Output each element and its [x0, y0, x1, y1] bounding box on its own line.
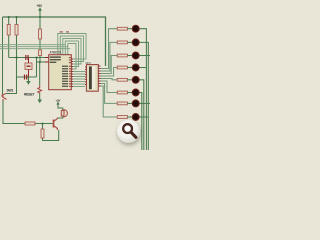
power +5V top — [37, 4, 43, 11]
wire R3 chain vertical — [39, 10, 41, 62]
ground arrow crystal — [26, 77, 31, 85]
net labels near bus corners — [60, 31, 70, 32]
LED D1 — [132, 25, 139, 32]
wire IC to respack 7 — [71, 86, 85, 88]
resistor R7 row2 — [117, 41, 127, 44]
switch RESET — [38, 86, 42, 94]
wire buzzer power — [58, 104, 63, 111]
LED D2 — [132, 39, 139, 46]
wire crystal loop bottom — [17, 76, 37, 78]
resistor R12 row7 — [117, 102, 127, 105]
wire row5 res-led — [127, 79, 132, 81]
wire respack fan row4 — [101, 68, 118, 77]
wire port bus horizontal 3 — [0, 48, 70, 50]
wire row7 res-led — [127, 102, 132, 104]
wire IC to respack 6 — [71, 83, 85, 85]
wire buzzer to collector — [58, 116, 63, 118]
wire port bus horizontal 1 — [0, 44, 65, 46]
wire port bus horizontal 2 — [0, 46, 68, 48]
svg-text:RESET: RESET — [24, 93, 35, 97]
transistor Q1 — [54, 118, 58, 131]
svg-text:SW1: SW1 — [7, 88, 14, 92]
wire led row6 right — [139, 93, 141, 151]
wire IC to respack 2 — [71, 73, 85, 75]
resistor R8 row3 — [117, 54, 127, 57]
wire respack fan row8 — [101, 86, 118, 117]
wire loop P0 3 — [63, 39, 81, 65]
resistor R3 — [39, 29, 42, 39]
wire reset vertical — [39, 62, 41, 100]
wire led row3 right — [139, 55, 150, 57]
wire RST horizontal — [37, 61, 49, 63]
IC inner text smudges — [50, 56, 68, 87]
resistor R4 base — [25, 122, 35, 125]
wire respack fan row1 — [101, 29, 118, 69]
wire loop P0 4 — [65, 41, 78, 67]
resistor R5 emitter — [41, 129, 44, 138]
wire IC to respack 4 — [71, 78, 85, 80]
wire base rail to transistor — [35, 123, 53, 125]
wire respack fan row5 — [101, 79, 118, 80]
wire R2 chain / crystal loop left vertical — [16, 17, 18, 77]
wire loop P0 2 — [60, 36, 83, 62]
wire led row7 right — [139, 102, 150, 104]
wire led row1 right — [139, 29, 146, 150]
LED D6 — [132, 89, 139, 96]
wire left edge vertical to SW1 — [2, 17, 4, 94]
wire R1 chain vertical — [8, 17, 10, 58]
wire row2 res-led — [127, 41, 132, 43]
svg-text:RP1: RP1 — [86, 61, 92, 65]
LED D3 — [132, 52, 139, 59]
wire respack fan row3 — [101, 56, 118, 74]
LED D7 — [132, 100, 139, 107]
LED D4 — [132, 64, 139, 71]
wire row1 res-led — [127, 28, 132, 30]
svg-text:+5V: +5V — [55, 99, 60, 103]
wire led row4 right — [139, 67, 146, 69]
wire XTAL1 horizontal — [9, 57, 49, 59]
resistor R1 — [7, 25, 10, 36]
wire crystal loop right vertical — [36, 58, 38, 78]
wire SW1 to base rail — [3, 100, 25, 124]
wire IC to respack 1 — [71, 71, 85, 73]
power +5V buzzer — [55, 99, 60, 105]
resistor R6 row1 — [117, 27, 127, 30]
LED rows: resistor + LED x8 — [117, 25, 139, 120]
wire led row5 right — [139, 80, 143, 150]
pin stubs right — [71, 59, 73, 87]
capacitor C2 — [25, 75, 27, 80]
resistor R10 row5 — [117, 78, 127, 81]
capacitor C3 reset — [39, 50, 42, 56]
pin stubs left — [45, 58, 49, 63]
wire row3 res-led — [127, 55, 132, 57]
wire IC to respack 3 — [71, 76, 85, 78]
wire loop P0 5 — [68, 44, 76, 70]
junction dots — [8, 16, 44, 124]
wire respack fan row6 — [101, 81, 118, 93]
LED D8 — [132, 114, 139, 121]
op-amp U1 microcontroller AT89C51 — [45, 51, 73, 90]
magnifier button overlay — [117, 120, 140, 143]
wire led row8 right — [139, 116, 148, 118]
resistor R9 row4 — [117, 66, 127, 69]
resistor R11 row6 — [117, 91, 127, 94]
wire SW1 connect horizontal — [6, 77, 17, 94]
svg-text:AT89C51: AT89C51 — [50, 51, 62, 55]
resistor R13 row8 — [117, 116, 127, 119]
wire IC to respack 5 — [71, 81, 85, 83]
wire row8 res-led — [127, 116, 132, 118]
crystal X1 — [25, 58, 32, 78]
wire row6 res-led — [127, 92, 132, 94]
wire respack fan row7 — [101, 84, 118, 104]
switch SW1 — [2, 94, 7, 102]
wire +5V rail top — [3, 17, 106, 66]
wire respack fan row2 — [101, 42, 118, 71]
resistor pack RP1 — [85, 61, 101, 91]
buzzer LS1 — [61, 110, 67, 117]
resistor R2 — [15, 25, 18, 36]
LED D5 — [132, 76, 139, 83]
wire base resistor drop — [43, 124, 59, 141]
ground arrow reset — [38, 100, 43, 104]
capacitor C1 — [26, 55, 28, 60]
wire row4 res-led — [127, 67, 132, 69]
wire led row2 right — [139, 42, 148, 150]
wire loop P0 1 — [58, 34, 86, 60]
